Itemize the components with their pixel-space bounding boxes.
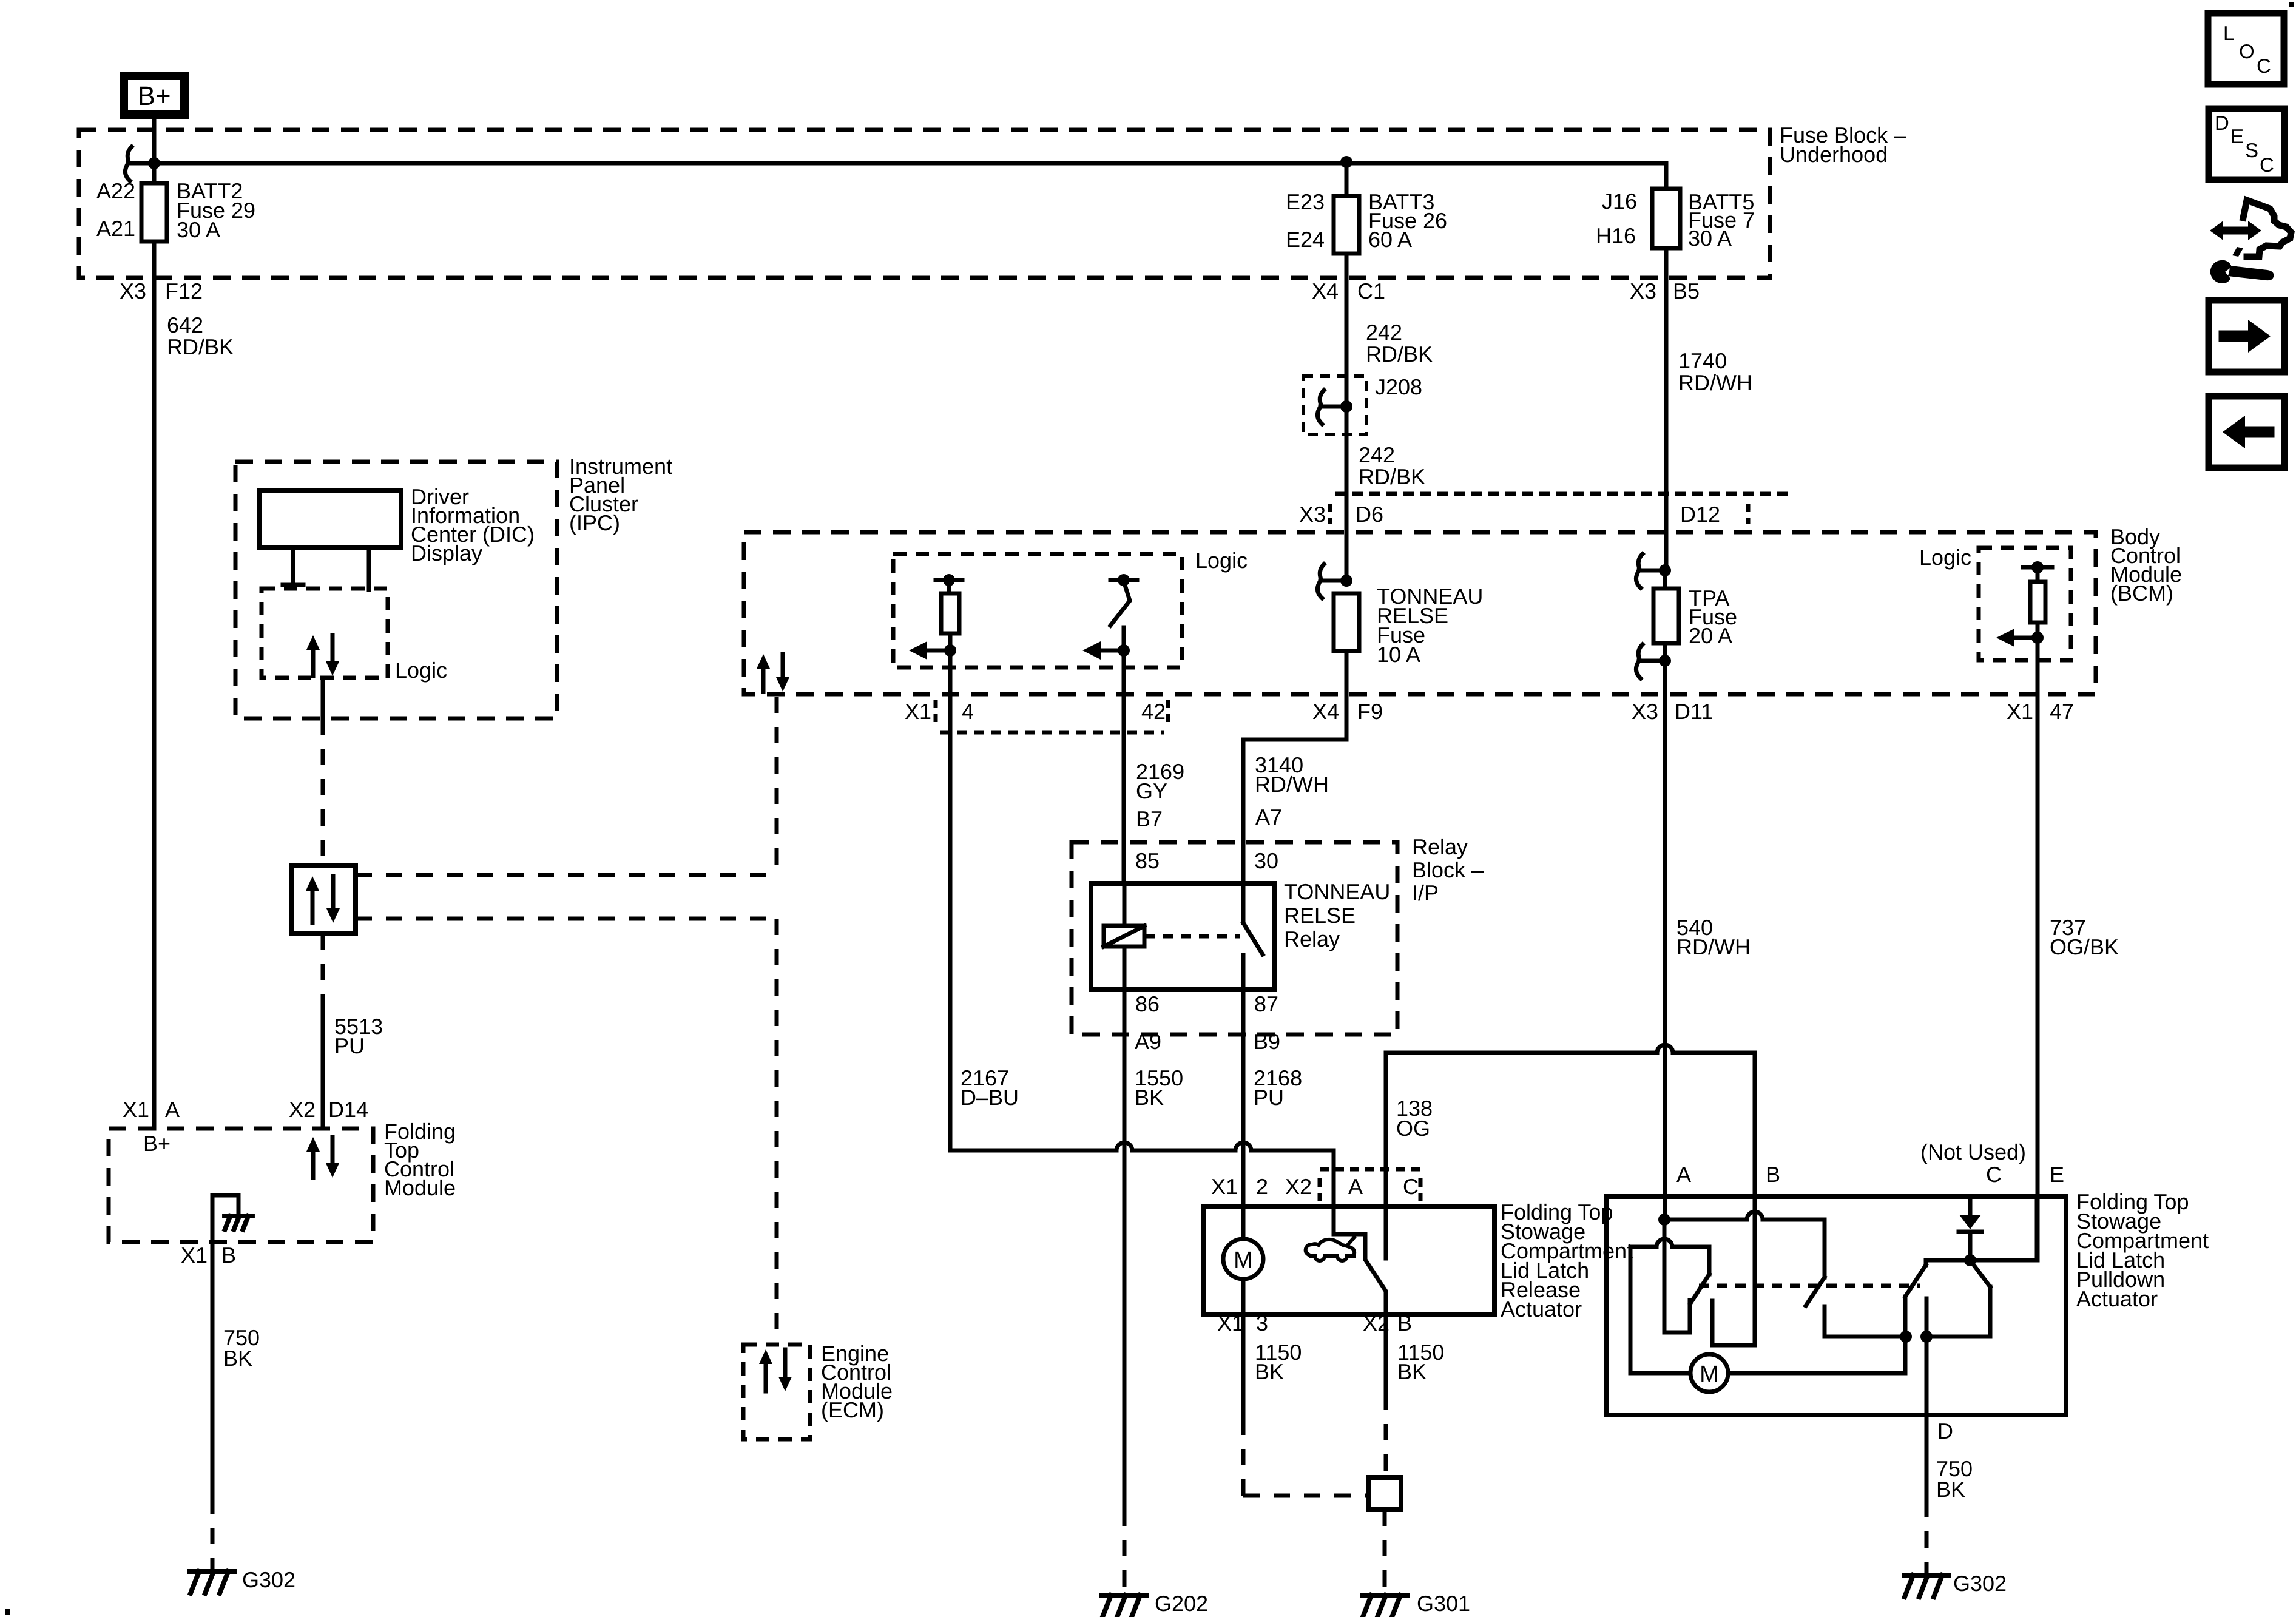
inline connector square bbox=[1369, 1477, 1401, 1510]
svg-text:Block –: Block – bbox=[1412, 857, 1484, 882]
svg-text:Actuator: Actuator bbox=[2076, 1286, 2158, 1311]
middle switch contact bbox=[1823, 1306, 1827, 1337]
svg-text:X3: X3 bbox=[1632, 699, 1658, 724]
svg-text:Relay: Relay bbox=[1412, 834, 1468, 859]
wire 2167 D-BU horizontal bbox=[950, 1143, 1334, 1150]
svg-text:X1: X1 bbox=[181, 1243, 208, 1268]
central module dashed box bbox=[744, 532, 2096, 694]
bus wire B+ across fuse block bbox=[154, 161, 1666, 166]
wire connector to G301 bbox=[1383, 1510, 1387, 1593]
svg-text:D: D bbox=[1937, 1419, 1953, 1443]
svg-text:C: C bbox=[1403, 1174, 1419, 1199]
resistor in BCM logic bbox=[2023, 565, 2052, 570]
icon box LOC bbox=[2208, 13, 2284, 84]
svg-text:X2: X2 bbox=[1285, 1174, 1312, 1199]
ground G202 bbox=[1123, 1510, 1127, 1593]
junction dot bus E23 bbox=[1340, 156, 1352, 168]
serial data wire pair upper bbox=[356, 873, 777, 877]
svg-text:BK: BK bbox=[223, 1346, 252, 1371]
svg-text:X1: X1 bbox=[1211, 1174, 1238, 1199]
junction dot D node bbox=[1920, 1331, 1933, 1343]
pulldown actuator box bbox=[1607, 1197, 2066, 1415]
svg-text:E: E bbox=[2230, 125, 2244, 147]
left switch blade bbox=[1707, 1247, 1712, 1274]
svg-text:J16: J16 bbox=[1602, 189, 1637, 214]
fuse BATT2 Fuse 29 bbox=[141, 183, 167, 241]
svg-text:D6: D6 bbox=[1356, 502, 1383, 527]
arrow BCM resistor output bbox=[2013, 636, 2038, 640]
svg-text:C: C bbox=[1986, 1162, 2002, 1187]
svg-text:(IPC): (IPC) bbox=[569, 510, 620, 535]
central module arrows bbox=[761, 667, 766, 692]
wire relay 86 to G202 bbox=[1123, 990, 1127, 1510]
svg-text:OG/BK: OG/BK bbox=[2050, 934, 2119, 959]
svg-text:B+: B+ bbox=[137, 81, 171, 111]
svg-text:RD/WH: RD/WH bbox=[1676, 934, 1751, 959]
connector bracket X1 pins 4 42 bbox=[940, 731, 1164, 735]
instrument panel cluster dashed box bbox=[235, 462, 557, 718]
car icon bbox=[1306, 1240, 1354, 1256]
motor feed left bbox=[1629, 1247, 1633, 1373]
svg-text:642: 642 bbox=[167, 312, 203, 337]
splice J208 dashed box bbox=[1303, 376, 1366, 434]
svg-text:B+: B+ bbox=[143, 1131, 171, 1156]
wire E internal bbox=[2035, 1197, 2039, 1260]
svg-text:C1: C1 bbox=[1357, 279, 1385, 303]
right switch open stub bbox=[1925, 1298, 1929, 1337]
svg-text:F12: F12 bbox=[165, 279, 203, 303]
serial data wire to ECM bbox=[775, 697, 779, 875]
svg-text:RD/BK: RD/BK bbox=[1359, 464, 1425, 489]
switch in logic box bbox=[1110, 578, 1137, 582]
svg-text:X1: X1 bbox=[1217, 1311, 1244, 1335]
left switch crossbar bbox=[1630, 1239, 1709, 1247]
svg-text:Logic: Logic bbox=[1919, 545, 1971, 570]
module internal ground bbox=[212, 1195, 238, 1242]
svg-text:E24: E24 bbox=[1286, 227, 1325, 252]
wire B+ to bus bbox=[152, 119, 157, 183]
svg-text:BK: BK bbox=[1397, 1359, 1427, 1384]
svg-text:L: L bbox=[2223, 22, 2234, 44]
svg-text:1740: 1740 bbox=[1678, 348, 1727, 373]
svg-text:60 A: 60 A bbox=[1368, 227, 1412, 252]
svg-text:X4: X4 bbox=[1312, 279, 1339, 303]
svg-text:X3: X3 bbox=[120, 279, 146, 303]
clip below TPA fuse bbox=[1638, 644, 1643, 657]
svg-text:RD/WH: RD/WH bbox=[1678, 370, 1752, 395]
pulldown top link A bbox=[1664, 1212, 1825, 1220]
svg-text:30 A: 30 A bbox=[1688, 226, 1732, 251]
svg-text:RELSE: RELSE bbox=[1284, 903, 1356, 928]
svg-text:G302: G302 bbox=[242, 1567, 295, 1592]
wire J208 down to BCM bbox=[1345, 407, 1349, 581]
svg-text:2: 2 bbox=[1256, 1174, 1268, 1199]
svg-text:OG: OG bbox=[1396, 1116, 1430, 1141]
svg-text:RD/BK: RD/BK bbox=[167, 334, 234, 359]
svg-text:Display: Display bbox=[411, 541, 482, 565]
svg-text:B: B bbox=[221, 1243, 236, 1268]
svg-text:D14: D14 bbox=[328, 1097, 368, 1122]
fuse BATT5 Fuse 7 bbox=[1652, 189, 1680, 248]
DIC display box bbox=[259, 490, 401, 547]
wire pin B down bbox=[1384, 1314, 1388, 1394]
serial data wire IPC to gateway bbox=[321, 678, 325, 718]
release motor M bbox=[1223, 1239, 1263, 1279]
svg-text:(BCM): (BCM) bbox=[2110, 581, 2173, 606]
arrow switch output bbox=[1099, 649, 1124, 653]
clip above tonneau fuse bbox=[1320, 564, 1324, 577]
wire pin B internal bbox=[1753, 1053, 1757, 1345]
svg-text:I/P: I/P bbox=[1412, 880, 1439, 905]
svg-text:20 A: 20 A bbox=[1689, 623, 1732, 648]
svg-text:30 A: 30 A bbox=[177, 217, 220, 242]
arrow resistor output bbox=[926, 649, 950, 653]
engine control module dashed box bbox=[743, 1345, 810, 1439]
svg-text:42: 42 bbox=[1141, 699, 1166, 724]
wire DIC display lead left bbox=[291, 547, 295, 585]
svg-text:A7: A7 bbox=[1255, 805, 1282, 829]
wire fuse7 down bbox=[1664, 248, 1669, 570]
folding top control module dashed box bbox=[109, 1129, 373, 1242]
junction dot BCM resistor output bbox=[2031, 632, 2044, 644]
icon box arrow left bbox=[2209, 396, 2284, 468]
wire fuse26 to J208 bbox=[1345, 254, 1349, 407]
junction dot B+ bus bbox=[148, 157, 160, 169]
svg-text:A22: A22 bbox=[96, 178, 135, 203]
release motor leads bbox=[1241, 1279, 1246, 1314]
svg-text:10 A: 10 A bbox=[1377, 642, 1420, 667]
release actuator box bbox=[1203, 1206, 1494, 1314]
svg-text:Relay: Relay bbox=[1284, 927, 1340, 951]
junction dot resistor output bbox=[944, 644, 956, 657]
release pin C stub bbox=[1384, 1174, 1388, 1258]
diode pulldown bbox=[1968, 1197, 1973, 1215]
svg-text:A: A bbox=[165, 1097, 180, 1122]
wire A hook contact bbox=[1663, 1220, 1667, 1332]
DIC logic arrows bbox=[311, 649, 316, 676]
svg-text:E: E bbox=[2050, 1162, 2064, 1187]
page mark bbox=[5, 1609, 10, 1615]
middle switch blade bbox=[1823, 1220, 1827, 1277]
svg-text:PU: PU bbox=[1254, 1085, 1284, 1110]
clip at B+ junction bbox=[127, 147, 132, 160]
right switch throw bbox=[1970, 1260, 1990, 1287]
svg-text:3: 3 bbox=[1256, 1311, 1268, 1335]
svg-text:F9: F9 bbox=[1357, 699, 1383, 724]
ground G301 bbox=[1362, 1593, 1407, 1598]
relay dashed link bbox=[1144, 934, 1240, 939]
ECM arrows bbox=[764, 1363, 768, 1391]
serial data gateway box bbox=[291, 865, 356, 933]
fuse block underhood dashed box bbox=[79, 130, 1770, 278]
BCM logic dashed box bbox=[1979, 548, 2071, 660]
svg-text:J208: J208 bbox=[1375, 374, 1422, 399]
svg-text:BK: BK bbox=[1936, 1477, 1965, 1502]
motor feed right bbox=[1728, 1371, 1905, 1376]
power symbol B+ bbox=[124, 76, 184, 115]
wire DIC display lead right bbox=[367, 547, 371, 590]
svg-text:4: 4 bbox=[962, 699, 974, 724]
svg-text:C: C bbox=[2257, 55, 2271, 77]
icon box DESC bbox=[2209, 109, 2284, 180]
wire BCM pin 47 down bbox=[2036, 638, 2040, 1260]
fuse BATT3 Fuse 26 bbox=[1334, 196, 1359, 254]
wire relay 87 down bbox=[1241, 990, 1246, 1239]
svg-text:Logic: Logic bbox=[395, 658, 447, 683]
wire 2167 D-BU to pin A bbox=[1332, 1150, 1336, 1234]
wire pin 4 down bbox=[948, 650, 953, 1150]
svg-text:D: D bbox=[2215, 112, 2229, 134]
relay TONNEAU RELSE solid box bbox=[1091, 883, 1275, 990]
svg-text:GY: GY bbox=[1136, 778, 1167, 803]
wire bus to fuse26 bbox=[1345, 163, 1349, 196]
wire tonneau fuse to relay 30 bbox=[1243, 651, 1346, 883]
svg-text:X1: X1 bbox=[905, 699, 931, 724]
svg-text:M: M bbox=[1700, 1362, 1719, 1387]
svg-text:E23: E23 bbox=[1286, 189, 1325, 214]
svg-text:O: O bbox=[2239, 40, 2255, 62]
svg-text:RD/WH: RD/WH bbox=[1255, 772, 1329, 797]
pulldown motor M bbox=[1690, 1354, 1728, 1392]
junction dot diode bbox=[1964, 1254, 1976, 1266]
svg-text:X1: X1 bbox=[123, 1097, 149, 1122]
svg-text:RD/BK: RD/BK bbox=[1366, 342, 1433, 366]
svg-text:G202: G202 bbox=[1155, 1591, 1208, 1616]
fuse TONNEAU RELSE 10A bbox=[1334, 593, 1359, 651]
svg-text:TONNEAU: TONNEAU bbox=[1284, 879, 1390, 904]
svg-text:A: A bbox=[1676, 1162, 1691, 1187]
svg-text:Logic: Logic bbox=[1195, 548, 1248, 573]
svg-text:BK: BK bbox=[1255, 1359, 1284, 1384]
svg-text:85: 85 bbox=[1135, 848, 1160, 873]
junction dot switch output bbox=[1118, 644, 1130, 657]
svg-text:D11: D11 bbox=[1675, 699, 1713, 724]
svg-text:D–BU: D–BU bbox=[961, 1085, 1019, 1110]
module arrows bbox=[311, 1150, 316, 1178]
svg-text:242: 242 bbox=[1366, 320, 1402, 345]
icon service view bbox=[2223, 227, 2248, 235]
svg-text:Actuator: Actuator bbox=[1501, 1297, 1582, 1322]
junction dot TPA bottom bbox=[1659, 655, 1671, 667]
junction dot motor node bbox=[1900, 1331, 1912, 1343]
junction dot pin A bbox=[1658, 1214, 1670, 1226]
svg-text:A: A bbox=[1348, 1174, 1363, 1199]
connector bracket X2 release bbox=[1320, 1167, 1420, 1172]
wire 5513 PU bbox=[321, 933, 325, 1000]
svg-text:D12: D12 bbox=[1680, 502, 1720, 527]
svg-text:30: 30 bbox=[1254, 848, 1278, 873]
serial data wire pair lower bbox=[356, 917, 777, 921]
fuse TPA 20A bbox=[1653, 589, 1679, 643]
relay block dashed box bbox=[1072, 842, 1397, 1035]
svg-text:X3: X3 bbox=[1299, 502, 1326, 527]
svg-text:(ECM): (ECM) bbox=[821, 1397, 884, 1422]
ground G302 left bbox=[190, 1569, 235, 1574]
svg-text:C: C bbox=[2260, 154, 2274, 176]
junction dot tonneau fuse top bbox=[1340, 575, 1352, 587]
junction dot TPA top bbox=[1659, 564, 1671, 576]
wire pin3 to connector bbox=[1241, 1314, 1246, 1419]
wire D to G302 bbox=[1925, 1415, 1929, 1501]
svg-text:(Not Used): (Not Used) bbox=[1920, 1139, 2026, 1164]
icon box arrow right bbox=[2209, 300, 2284, 372]
switch linkage dashed bbox=[1699, 1284, 1920, 1288]
svg-text:87: 87 bbox=[1254, 991, 1278, 1016]
relay coil wire 85-86 bbox=[1123, 883, 1127, 926]
svg-text:G301: G301 bbox=[1417, 1591, 1470, 1616]
svg-text:A21: A21 bbox=[96, 216, 135, 241]
wire 750 BK left bbox=[211, 1242, 215, 1497]
svg-text:B5: B5 bbox=[1673, 279, 1700, 303]
svg-text:M: M bbox=[1234, 1247, 1253, 1273]
svg-text:B7: B7 bbox=[1136, 806, 1163, 831]
svg-text:S: S bbox=[2245, 139, 2258, 161]
bus corner to fuse7 bbox=[1664, 163, 1669, 189]
svg-text:PU: PU bbox=[334, 1033, 365, 1058]
svg-text:X1: X1 bbox=[2007, 699, 2033, 724]
inner logic dashed box left bbox=[893, 554, 1182, 667]
svg-text:242: 242 bbox=[1359, 442, 1395, 467]
svg-text:B: B bbox=[1766, 1162, 1780, 1187]
svg-text:86: 86 bbox=[1135, 991, 1160, 1016]
wire pin 42 down bbox=[1122, 650, 1126, 883]
wire 138 OG bbox=[1384, 1053, 1388, 1174]
release switch from pin A bbox=[1334, 1234, 1386, 1314]
svg-text:Underhood: Underhood bbox=[1780, 142, 1888, 167]
wire TPA down to actuator A bbox=[1663, 570, 1667, 589]
wire pin D down bbox=[1925, 1337, 1929, 1415]
wire fuse29 down bbox=[152, 241, 157, 1129]
svg-text:X4: X4 bbox=[1312, 699, 1339, 724]
clip above TPA fuse bbox=[1638, 554, 1643, 567]
svg-text:B9: B9 bbox=[1254, 1029, 1280, 1054]
ground G302 right bbox=[1904, 1573, 1949, 1578]
svg-text:A9: A9 bbox=[1135, 1029, 1161, 1054]
svg-text:H16: H16 bbox=[1596, 223, 1636, 248]
svg-text:47: 47 bbox=[2050, 699, 2074, 724]
relay coil bbox=[1104, 926, 1144, 947]
svg-text:X3: X3 bbox=[1630, 279, 1656, 303]
resistor in logic box bbox=[936, 578, 962, 582]
svg-text:X2: X2 bbox=[289, 1097, 316, 1122]
connector bracket X3 D6 D12 bbox=[1335, 492, 1789, 496]
gateway arrows bbox=[311, 890, 315, 923]
svg-text:B: B bbox=[1397, 1311, 1412, 1335]
svg-text:Module: Module bbox=[384, 1175, 456, 1200]
svg-text:G302: G302 bbox=[1953, 1571, 2007, 1596]
DIC logic dashed box bbox=[262, 589, 388, 678]
junction dot J208 bbox=[1340, 400, 1352, 413]
relay switch bbox=[1241, 883, 1246, 923]
svg-text:BK: BK bbox=[1135, 1085, 1164, 1110]
right switch blade bbox=[1926, 1258, 1970, 1263]
clip at J208 bbox=[1320, 390, 1324, 403]
